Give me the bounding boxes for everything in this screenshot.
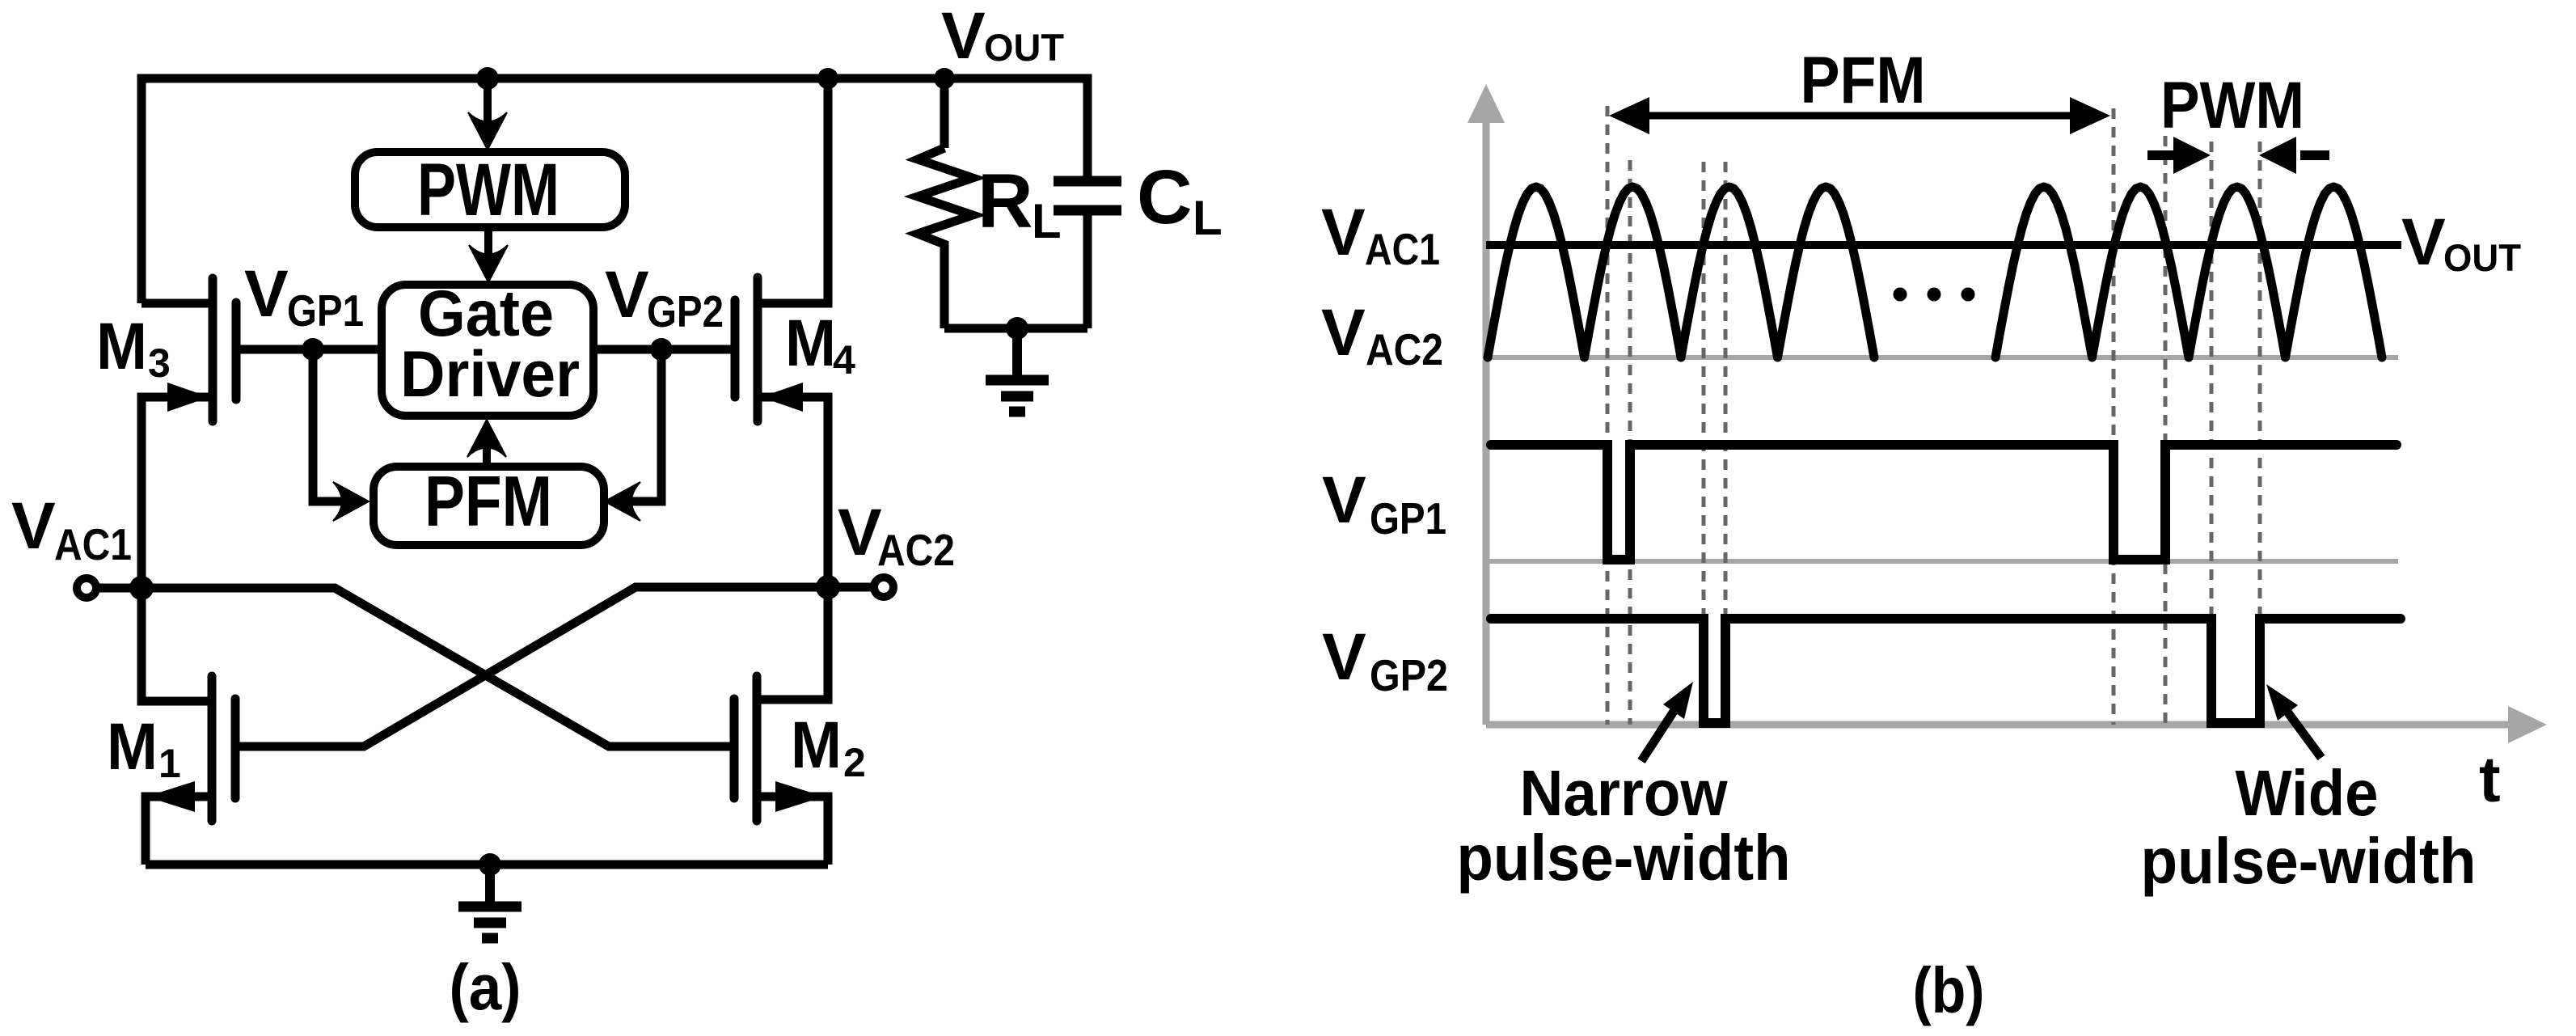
svg-text:V: V <box>838 496 882 569</box>
wire M3 source to node VAC1 <box>141 397 209 588</box>
dashed guide lines <box>1607 106 2260 725</box>
wire M1 source to ground rail <box>146 797 212 865</box>
node VAC2 junction <box>816 575 840 599</box>
svg-text:PFM: PFM <box>424 461 552 541</box>
wire VAC2 port stub <box>828 583 875 592</box>
svg-text:V: V <box>244 257 289 331</box>
arrow PWM left <box>2147 150 2177 160</box>
dots ellipsis <box>1894 288 1907 302</box>
node junction PWM tap <box>476 67 499 90</box>
wire VGP2 gate driver to M4 gate <box>593 345 735 354</box>
baseline VAC zero <box>1488 355 2398 360</box>
waveform VGP1 <box>1491 445 2397 560</box>
svg-text:V: V <box>2401 205 2446 279</box>
svg-text:OUT: OUT <box>2443 236 2521 279</box>
svg-text:GP1: GP1 <box>287 285 364 336</box>
svg-text:AC1: AC1 <box>1365 224 1440 274</box>
svg-text:V: V <box>605 258 649 332</box>
svg-text:M: M <box>791 708 842 782</box>
arrow top rail into PWM <box>484 78 492 124</box>
node VOUT junction <box>934 68 955 89</box>
wire M4 source to node VAC2 and M2 drain <box>757 397 828 700</box>
svg-text:Driver: Driver <box>400 338 580 411</box>
waveform rectified sine group 2 <box>1995 187 2382 357</box>
svg-text:AC2: AC2 <box>1366 324 1443 374</box>
node ground rail junction <box>479 853 501 876</box>
wire VGP1 gate driver to M3 gate <box>236 345 382 354</box>
axis time <box>1486 721 2511 729</box>
wire VAC1 port stub <box>95 584 141 593</box>
svg-text:V: V <box>941 0 986 73</box>
transistor M2 channel and gate bars <box>734 676 757 821</box>
axis vertical <box>1483 121 1490 725</box>
svg-text:2: 2 <box>843 740 866 785</box>
arrow VGP1 into PFM <box>333 482 369 521</box>
transistor M3 channel and gate bars <box>213 278 236 421</box>
svg-text:AC1: AC1 <box>54 519 132 569</box>
transistor M2 source arrow <box>775 781 824 812</box>
svg-text:1: 1 <box>158 741 181 786</box>
svg-text:L: L <box>1193 191 1223 245</box>
arrow PFM span <box>1645 112 2075 120</box>
svg-text:GP2: GP2 <box>1370 650 1448 700</box>
svg-text:t: t <box>2479 743 2501 815</box>
transistor M4 source arrow <box>761 383 803 412</box>
node VAC1 junction <box>129 576 154 600</box>
svg-text:OUT: OUT <box>984 26 1064 69</box>
svg-text:4: 4 <box>833 337 855 383</box>
node VGP1 junction <box>302 338 324 361</box>
svg-text:3: 3 <box>148 340 171 386</box>
line VOUT level <box>1486 241 2401 249</box>
block Gate Driver <box>382 285 593 416</box>
wire cross-couple VAC1 to M2 gate <box>141 588 734 746</box>
arrow narrow pulse annotation <box>1641 708 1676 761</box>
svg-text:GP2: GP2 <box>647 286 724 336</box>
capacitor CL top lead <box>1083 78 1092 176</box>
svg-text:pulse-width: pulse-width <box>2141 825 2477 897</box>
arrow VGP2 into PFM <box>605 482 640 521</box>
svg-text:pulse-width: pulse-width <box>1457 822 1791 894</box>
wire cross-couple VAC2 to M1 gate <box>235 587 828 746</box>
svg-text:GP1: GP1 <box>1370 493 1446 543</box>
svg-text:M: M <box>96 310 147 383</box>
ground symbol RC <box>986 328 1049 412</box>
svg-text:PWM: PWM <box>417 149 560 231</box>
wire M2 source to ground rail <box>757 797 828 865</box>
wire resistor RL top lead <box>940 78 949 148</box>
resistor RL zigzag body <box>918 148 973 328</box>
svg-text:C: C <box>1137 154 1193 240</box>
node junction above M4 <box>817 68 838 89</box>
svg-text:V: V <box>1321 296 1366 370</box>
wire RC bottom <box>944 324 1087 333</box>
svg-text:PFM: PFM <box>1801 44 1926 117</box>
block PFM <box>374 467 604 545</box>
wire node VAC1 to M1 drain <box>141 588 212 701</box>
svg-text:R: R <box>978 159 1033 244</box>
svg-text:Wide: Wide <box>2236 757 2379 829</box>
wire VOUT top rail <box>141 78 1087 303</box>
arrow PFM into Gate Driver <box>483 443 491 466</box>
svg-text:(b): (b) <box>1913 954 1985 1026</box>
svg-text:(a): (a) <box>450 951 522 1023</box>
svg-text:M: M <box>785 307 836 380</box>
transistor M1 channel and gate bars <box>212 676 235 821</box>
transistor M3 source arrow <box>167 383 209 412</box>
node VGP2 junction <box>650 338 673 361</box>
svg-text:V: V <box>1322 463 1366 537</box>
waveform VAC1/VAC2 rectified sine group 1 <box>1488 187 1874 357</box>
transistor M1 source arrow <box>146 781 195 812</box>
terminal VAC2 port circle <box>874 577 893 597</box>
wire M3 drain terminal <box>141 299 209 308</box>
svg-text:AC2: AC2 <box>877 525 955 575</box>
arrow PWM right <box>2300 150 2329 160</box>
wire M4 drain to top rail <box>758 78 828 303</box>
wire VGP1 to PFM input <box>313 349 348 501</box>
waveform VGP2 <box>1491 619 2401 723</box>
terminal VAC1 port circle <box>77 578 96 598</box>
svg-text:Narrow: Narrow <box>1520 757 1729 829</box>
node RC ground junction <box>1006 317 1028 340</box>
arrow PWM into Gate Driver <box>484 228 492 256</box>
wire ground rail <box>146 861 828 869</box>
wire VGP2 to PFM input <box>626 349 661 501</box>
block PWM <box>355 152 625 227</box>
arrow wide pulse annotation <box>2285 708 2321 758</box>
transistor M4 channel and gate bars <box>735 277 758 421</box>
svg-text:L: L <box>1032 194 1062 248</box>
capacitor CL plates <box>1054 181 1121 210</box>
baseline VGP1 low <box>1488 559 2398 564</box>
svg-text:V: V <box>1322 620 1366 694</box>
svg-text:M: M <box>107 710 158 784</box>
svg-text:V: V <box>1321 196 1366 269</box>
svg-text:V: V <box>11 489 56 563</box>
svg-text:PWM: PWM <box>2160 69 2304 142</box>
capacitor CL bottom lead <box>1083 215 1092 328</box>
ground symbol main <box>458 865 522 938</box>
